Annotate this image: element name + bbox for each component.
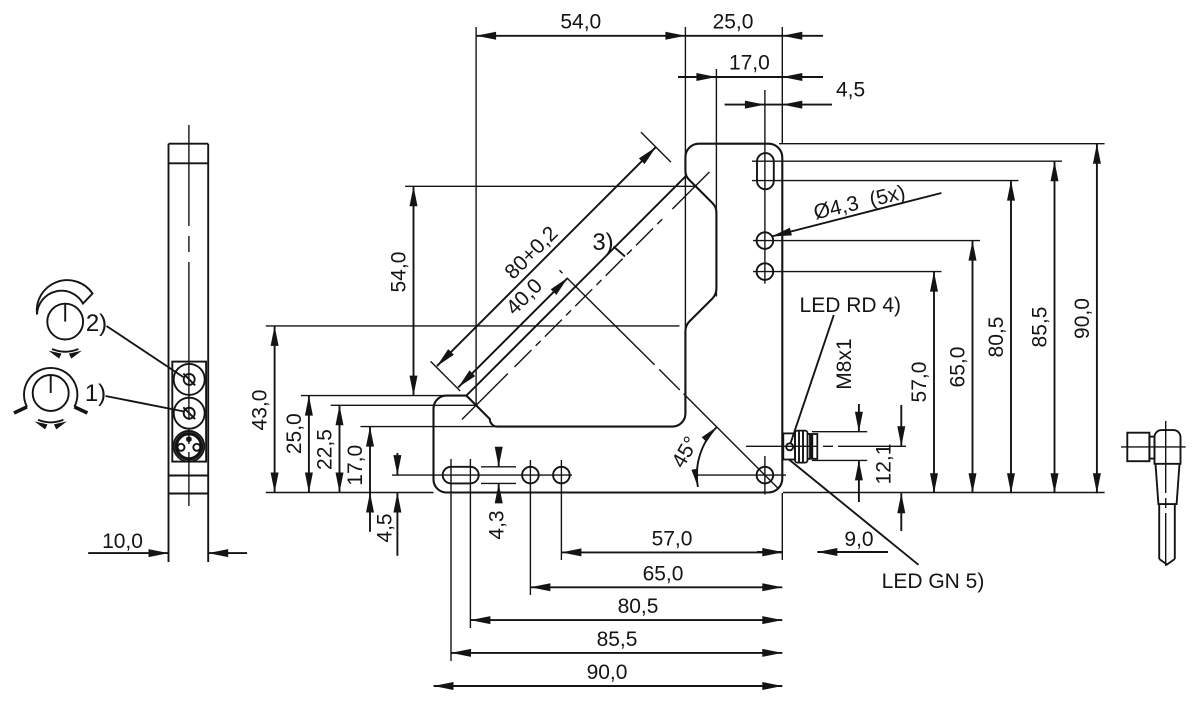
bottom holes centerline <box>392 474 572 476</box>
connector M8 extension lines <box>812 432 867 461</box>
ext line lower hole / 57,0 <box>753 271 942 273</box>
ext line hole left / 65,0 bottom <box>529 460 531 595</box>
svg-text:17,0: 17,0 <box>344 445 367 486</box>
dimension 65,0 vertical right <box>947 241 977 494</box>
dimension 80,5 vertical right <box>985 181 1015 494</box>
vertex hole centerline horizontal <box>694 474 786 476</box>
dimension 85,5 bottom <box>451 628 782 657</box>
main bracket outline <box>434 144 783 493</box>
dimension 25,0 top <box>685 11 823 40</box>
leader from 1) to potentiometer 2 <box>106 396 185 412</box>
leader LED RD <box>791 315 834 443</box>
right plate slot hole <box>757 153 774 189</box>
svg-text:25,0: 25,0 <box>283 413 306 454</box>
ext line 54/25 shared <box>684 27 686 413</box>
label 3) <box>592 229 613 256</box>
dimension 9,0 <box>757 528 888 556</box>
dimension 25,0 left <box>283 396 313 493</box>
svg-text:4,5: 4,5 <box>374 513 397 542</box>
svg-text:85,5: 85,5 <box>597 628 638 651</box>
svg-text:65,0: 65,0 <box>643 562 684 585</box>
ext line upper hole / 65,0 <box>753 240 980 242</box>
cable connector centerline horizontal <box>1121 446 1186 448</box>
dimension 4,5 left <box>374 453 402 556</box>
corner vertex hole <box>757 467 774 484</box>
dimension 17,0 left <box>344 427 374 532</box>
knob symbol 2) circle and pointer <box>47 304 83 340</box>
label 2) <box>86 310 107 337</box>
side view face frame <box>172 362 206 462</box>
slot centerline vertical right plate <box>764 90 766 284</box>
cable connector centerline vertical <box>1165 421 1167 566</box>
label 1) <box>85 380 106 407</box>
svg-text:M8x1: M8x1 <box>833 338 856 389</box>
optical axis 3) along sensor <box>462 172 710 420</box>
ext line 54 left at beam exit <box>475 27 477 405</box>
ext line slot left circle / 85,5 bottom <box>450 459 452 661</box>
optical axis through vertex <box>560 270 779 488</box>
right plate hole upper <box>757 232 774 249</box>
ext line 17,0 left <box>361 426 498 428</box>
dimension M8x1 <box>833 338 863 502</box>
cable <box>1159 504 1175 564</box>
ext line slot top circle / 85,5 <box>752 160 1062 162</box>
svg-text:85,5: 85,5 <box>1029 307 1052 348</box>
knob symbol 1) rotate arrow <box>35 420 67 430</box>
dimension 17,0 top <box>678 52 823 82</box>
svg-text:10,0: 10,0 <box>102 530 143 553</box>
LED on connector <box>786 443 793 450</box>
dimension 4,5 top <box>725 79 866 109</box>
ext line bottom edge right <box>783 492 1105 494</box>
ext tick diagonal lower <box>431 361 461 391</box>
leader LED GN <box>789 460 919 565</box>
side view lower edge lines <box>169 476 209 494</box>
knob symbol 1) outer arc with wings <box>14 368 87 413</box>
svg-text:4,3: 4,3 <box>486 510 509 539</box>
svg-text:2): 2) <box>86 310 107 337</box>
right plate hole lower <box>757 263 774 280</box>
leader 3) <box>614 247 626 257</box>
ext line bottom edge left <box>266 492 434 494</box>
svg-text:90,0: 90,0 <box>1071 298 1094 339</box>
knob symbol 2) rotate arrow <box>49 349 82 359</box>
ext line tab top / 90,0 <box>779 143 1105 145</box>
ext line 54,0 vertical top <box>405 185 697 187</box>
dimension 43,0 <box>249 326 279 493</box>
dimension 45 degree arc <box>667 427 716 487</box>
bottom plate slot hole <box>443 467 479 484</box>
svg-text:80,5: 80,5 <box>985 317 1008 358</box>
label LED RD 4) <box>800 294 902 317</box>
svg-text:43,0: 43,0 <box>249 390 272 431</box>
side view top cap line <box>169 162 209 164</box>
dimension 40,0 diagonal <box>458 274 568 387</box>
svg-text:22,5: 22,5 <box>314 429 337 470</box>
potentiometer 1 (top) on body <box>174 364 205 395</box>
dimension 57,0 vertical right <box>908 272 938 494</box>
M8 connector face <box>174 431 205 462</box>
sensor face diagonal edge <box>466 177 685 396</box>
svg-text:17,0: 17,0 <box>729 52 770 75</box>
vertex hole centerline vertical <box>764 456 766 495</box>
ext line slot right circle / 80,5 bottom <box>469 459 471 628</box>
ext line 43,0 <box>266 325 680 327</box>
M8 connector side view <box>783 431 817 463</box>
ext line right edge top <box>781 27 783 144</box>
cable connector body <box>1155 430 1181 464</box>
ext tick diagonal upper <box>641 132 671 162</box>
label LED GN 5) <box>882 570 985 593</box>
svg-text:54,0: 54,0 <box>388 252 411 293</box>
svg-text:1): 1) <box>85 380 106 407</box>
dimension 22,5 <box>314 405 344 492</box>
dimension 54,0 vertical <box>388 186 418 395</box>
knob symbol 2) crescent arc <box>37 280 93 314</box>
connector centerline <box>746 445 906 447</box>
cable connector washer <box>1149 437 1154 459</box>
dimension 65,0 bottom <box>530 562 782 591</box>
svg-text:90,0: 90,0 <box>587 661 628 684</box>
svg-text:25,0: 25,0 <box>713 11 754 34</box>
svg-text:LED GN 5): LED GN 5) <box>882 570 985 593</box>
svg-text:80,5: 80,5 <box>618 595 659 618</box>
dimension 85,5 vertical right <box>1029 161 1059 493</box>
dimension 90,0 bottom <box>434 661 783 690</box>
dimension 80+0,2 diagonal <box>437 147 656 366</box>
knob symbol 1) circle and pointer <box>33 375 69 411</box>
svg-text:65,0: 65,0 <box>947 347 970 388</box>
side view centerline <box>188 125 190 506</box>
ext line 25,0 left / sensor face <box>301 395 444 397</box>
svg-text:9,0: 9,0 <box>844 528 873 551</box>
dimension 80,5 bottom <box>470 595 782 624</box>
svg-text:3): 3) <box>592 229 613 256</box>
label diameter 4,3 (5x) <box>772 181 942 237</box>
dimension 4,3 hole <box>481 447 516 540</box>
ext line hole right / 57,0 bottom <box>560 460 562 560</box>
leader from 2) to potentiometer 1 <box>107 326 184 377</box>
dimension 90,0 vertical right <box>1071 144 1101 494</box>
ext line 17,0 top <box>715 69 717 297</box>
potentiometer 2 (lower) on body <box>174 398 205 429</box>
side view body outline <box>169 144 209 562</box>
dimension 10,0 under side view <box>88 530 247 557</box>
bottom plate hole left <box>522 467 539 484</box>
cable connector taper <box>1156 464 1180 504</box>
dimension 12,1 <box>873 405 906 531</box>
ext line slot bottom circle / 80,5 <box>752 180 1019 182</box>
cable connector nut <box>1127 433 1149 462</box>
dimension 54,0 top <box>476 11 685 40</box>
svg-text:57,0: 57,0 <box>908 362 931 403</box>
dimension 57,0 bottom <box>561 527 782 556</box>
svg-text:LED RD 4): LED RD 4) <box>800 294 902 317</box>
ext line right edge bottom <box>781 493 783 560</box>
svg-text:4,5: 4,5 <box>836 79 865 102</box>
svg-text:12,1: 12,1 <box>873 444 896 485</box>
ext line 22,5 left <box>331 404 476 406</box>
bottom plate hole right <box>553 467 570 484</box>
svg-text:54,0: 54,0 <box>560 11 601 34</box>
svg-text:57,0: 57,0 <box>652 527 693 550</box>
